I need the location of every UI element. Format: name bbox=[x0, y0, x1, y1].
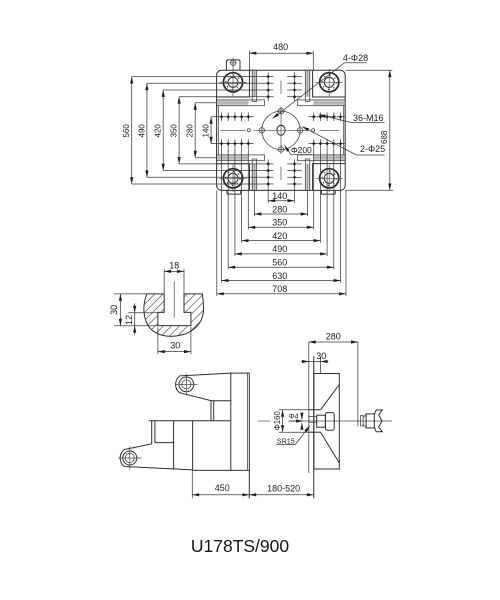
hole row lines left and right middle groups bbox=[211, 116, 254, 118]
vertical T-slot band bottom-left of centre bbox=[253, 164, 257, 190]
svg-text:Φ200: Φ200 bbox=[291, 145, 312, 155]
vertical T-slot band top-right of centre bbox=[306, 71, 310, 97]
corner block top-left bbox=[217, 70, 250, 97]
dimension 280 bottom bbox=[254, 213, 307, 215]
svg-text:708: 708 bbox=[272, 284, 287, 294]
svg-text:560: 560 bbox=[122, 124, 131, 138]
Φ160 extension lines bbox=[279, 409, 309, 411]
svg-text:420: 420 bbox=[154, 124, 163, 138]
moving platen face lines bbox=[247, 373, 249, 470]
dimension 280 side view bbox=[357, 342, 359, 427]
bolt hole S bbox=[278, 147, 283, 152]
dimension 140 left bbox=[210, 117, 212, 144]
corner block bottom-left bbox=[217, 164, 250, 191]
horizontal centreline dash left bbox=[220, 129, 246, 131]
corner block bottom-right bbox=[313, 164, 346, 191]
svg-text:490: 490 bbox=[137, 124, 146, 138]
svg-text:280: 280 bbox=[326, 331, 341, 341]
side view upper bracket outline bbox=[176, 373, 231, 421]
central locating hole bbox=[277, 125, 285, 135]
svg-text:420: 420 bbox=[272, 231, 287, 241]
svg-text:560: 560 bbox=[272, 258, 287, 268]
dimension 480 extension lines bbox=[248, 51, 250, 70]
platen edge T-slot line right bbox=[343, 106, 345, 155]
dimension 688 bbox=[389, 70, 391, 190]
bolt hole E bbox=[298, 128, 303, 133]
dimension 30 side view bbox=[320, 357, 322, 374]
T-slot band below top-left block bbox=[217, 100, 248, 105]
hole row bars right columns top/bottom groups bbox=[287, 76, 302, 78]
svg-text:2-Φ25: 2-Φ25 bbox=[360, 144, 385, 154]
side view bottom edge bbox=[193, 469, 250, 471]
dimension 420 bottom bbox=[242, 240, 321, 242]
vertical T-slot band bottom-right of centre bbox=[306, 164, 310, 190]
injection nozzle clamp bbox=[374, 410, 382, 432]
tie-bar hole bottom-right bbox=[320, 169, 339, 188]
T-slot detail stem centreline bbox=[173, 282, 175, 318]
dimension Φ160 bbox=[282, 410, 284, 432]
svg-text:630: 630 bbox=[272, 271, 287, 281]
dimension 450 bbox=[192, 494, 249, 496]
dimension 630 bottom bbox=[222, 280, 341, 282]
corner block top-right bbox=[313, 70, 346, 97]
nozzle seat block bbox=[317, 415, 326, 427]
tie-bar hole top-right bbox=[320, 73, 339, 92]
svg-text:350: 350 bbox=[272, 218, 287, 228]
dimension 280 left extension lines bbox=[195, 102, 216, 104]
injection nozzle barrel bbox=[366, 414, 374, 428]
dimension 350 bottom bbox=[248, 226, 313, 228]
M16 holes left and right middle groups bbox=[220, 115, 224, 119]
sprue hole box bbox=[309, 416, 317, 422]
T-slot band below top-right block bbox=[313, 100, 344, 105]
T-slot band above bottom-left block bbox=[217, 155, 248, 160]
bolt circle Φ200 bbox=[262, 111, 300, 149]
dimension 490 left bbox=[146, 83, 148, 177]
T-slot detail dimension 12 bbox=[128, 312, 158, 314]
svg-text:280: 280 bbox=[186, 124, 195, 138]
vertical centreline dash top bbox=[280, 81, 282, 95]
dimension 560 left bbox=[131, 77, 133, 184]
svg-text:SR15: SR15 bbox=[277, 436, 295, 445]
svg-text:280: 280 bbox=[272, 204, 287, 214]
tie-bar hole top-left bbox=[223, 73, 242, 92]
svg-text:18: 18 bbox=[169, 260, 179, 270]
nozzle centreline bbox=[258, 420, 271, 422]
svg-text:Φ4: Φ4 bbox=[289, 411, 299, 420]
platen edge T-slot line left bbox=[217, 106, 219, 155]
T-slot detail dimension 30 bottom bbox=[157, 327, 159, 354]
svg-text:140: 140 bbox=[272, 191, 287, 201]
svg-text:450: 450 bbox=[215, 483, 230, 493]
svg-text:140: 140 bbox=[202, 124, 211, 138]
lifting lug tab top-left bbox=[226, 60, 240, 70]
machine base line bbox=[149, 420, 231, 422]
dimension 490 bottom bbox=[235, 253, 327, 255]
dimension 688 extension lines bbox=[346, 69, 392, 71]
hole column centrelines top and bottom middle groups bbox=[267, 72, 269, 101]
side view upper bracket top edge bbox=[231, 372, 250, 374]
side view lower bracket outline bbox=[120, 444, 192, 470]
hole column ticks left and right middle groups bbox=[221, 113, 223, 122]
horizontal centreline dash right bbox=[320, 129, 339, 131]
svg-text:688: 688 bbox=[380, 130, 389, 144]
extension lines to bottom dimension stack bbox=[267, 188, 269, 203]
dimension 180-520 bbox=[249, 494, 313, 496]
dimension 420 left bbox=[162, 90, 164, 171]
injection nozzle tip bbox=[361, 416, 364, 427]
svg-text:U178TS/900: U178TS/900 bbox=[191, 536, 290, 556]
central vertical centreline bbox=[280, 108, 282, 151]
central horizontal centreline bbox=[253, 129, 308, 131]
dimension 560 bottom bbox=[228, 266, 334, 268]
tie-bar hole bottom-left bbox=[223, 169, 242, 188]
T-slot section detail outline bbox=[144, 294, 204, 336]
vertical centreline dash bottom bbox=[280, 167, 282, 181]
svg-text:12: 12 bbox=[124, 315, 134, 325]
fixed platen face line A bbox=[308, 342, 310, 473]
sprue recess lines bbox=[309, 409, 321, 411]
locating ring block bbox=[325, 413, 334, 431]
svg-text:36-M16: 36-M16 bbox=[353, 113, 384, 123]
svg-text:30: 30 bbox=[109, 305, 119, 315]
svg-text:Φ160: Φ160 bbox=[273, 411, 282, 431]
dimension 350 left bbox=[178, 97, 180, 164]
dimension 480 bbox=[249, 52, 313, 54]
svg-text:30: 30 bbox=[170, 341, 180, 351]
svg-text:180-520: 180-520 bbox=[267, 484, 300, 494]
extension lines from left dims through to hole rows bbox=[132, 76, 274, 78]
svg-text:4-Φ28: 4-Φ28 bbox=[343, 53, 368, 63]
svg-text:350: 350 bbox=[170, 124, 179, 138]
T-slot detail dimension 30 vertical bbox=[114, 293, 147, 295]
fixed platen face line B bbox=[313, 356, 315, 498]
bolt hole W bbox=[259, 128, 264, 133]
dimension 708 bottom bbox=[217, 293, 346, 295]
T-slot band above bottom-right block bbox=[313, 155, 344, 160]
bottom tab right bbox=[321, 190, 335, 194]
M16 holes top and bottom middle groups bbox=[266, 75, 270, 79]
svg-text:480: 480 bbox=[273, 42, 288, 52]
svg-text:30: 30 bbox=[316, 351, 326, 361]
side view upper bracket lug hole bbox=[179, 377, 194, 392]
dimension 450 extension line bbox=[191, 470, 193, 498]
small hole on centreline left bbox=[247, 129, 250, 132]
bottom tab left bbox=[227, 190, 241, 194]
lifting lug hole bbox=[231, 60, 236, 65]
platen front view outline bbox=[217, 70, 346, 190]
svg-text:490: 490 bbox=[272, 244, 287, 254]
bolt hole N bbox=[278, 108, 283, 113]
fixed platen funnel diagonals bbox=[321, 385, 340, 410]
fixed platen body bbox=[314, 374, 340, 470]
T-slot detail dimension 18 bbox=[163, 269, 165, 294]
dimension 140 bottom bbox=[268, 200, 294, 202]
vertical T-slot band top-left of centre bbox=[253, 71, 257, 97]
dimension 280 left bbox=[194, 103, 196, 158]
small hole on centreline right bbox=[312, 129, 315, 132]
side view lower bracket lug hole bbox=[123, 451, 137, 465]
